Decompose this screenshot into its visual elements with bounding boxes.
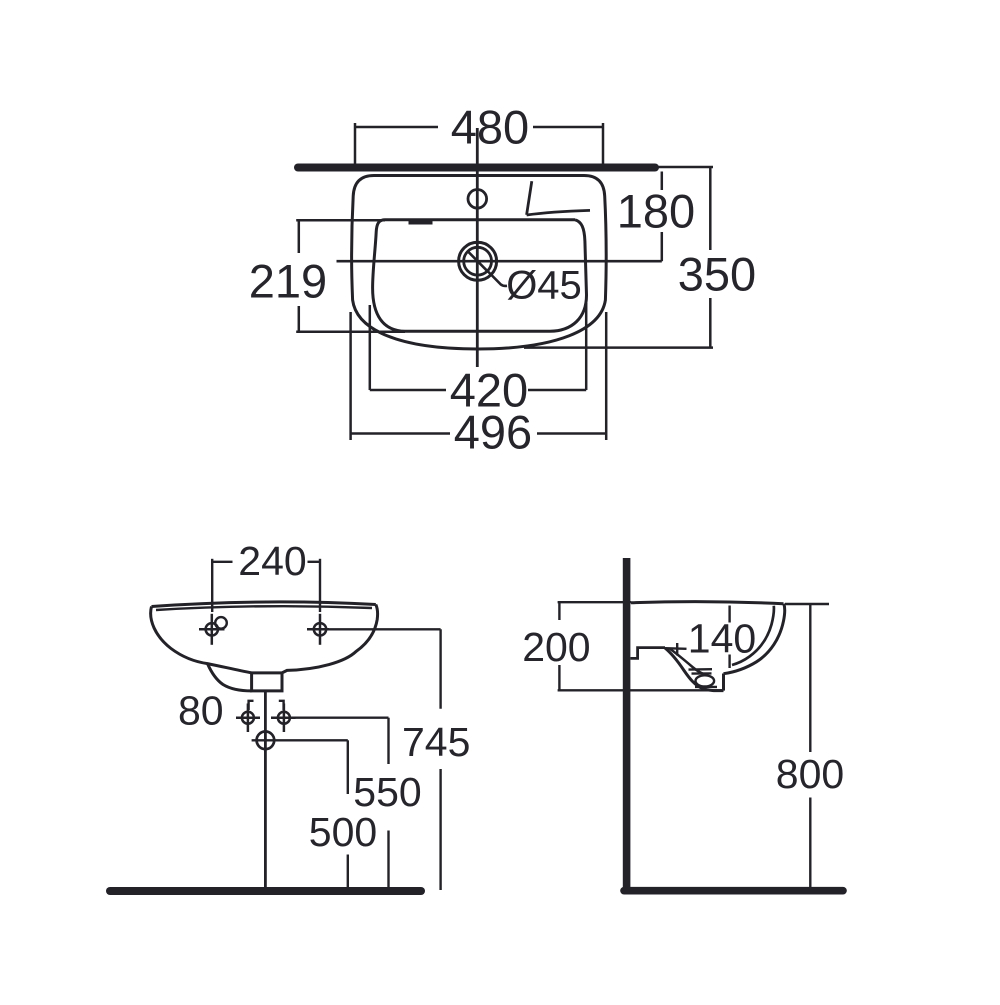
dim 480 ext left bbox=[354, 123, 357, 167]
dim 550 vertical bbox=[387, 718, 389, 764]
svg-text:745: 745 bbox=[402, 719, 470, 765]
svg-text:140: 140 bbox=[688, 616, 756, 662]
dim 480 ext right bbox=[602, 123, 605, 167]
svg-text:180: 180 bbox=[617, 185, 695, 238]
dim 140 line bbox=[728, 606, 730, 623]
floor line side (thick) bbox=[624, 887, 843, 895]
svg-text:219: 219 bbox=[249, 255, 327, 308]
overflow ring bbox=[215, 617, 227, 629]
trap oval under line bbox=[695, 686, 717, 688]
dim 240 ext right bbox=[319, 559, 321, 612]
dim 496 ext right bbox=[605, 312, 608, 440]
dim 219 top ext bbox=[296, 219, 385, 222]
basin underside inner line bbox=[670, 649, 706, 675]
dim 420 ext left bbox=[369, 305, 372, 390]
trap rectangle bbox=[252, 673, 282, 691]
overflow slot dash bbox=[409, 220, 433, 224]
dim 240 line bbox=[212, 561, 232, 563]
dim 550 horizontal bbox=[296, 717, 389, 719]
mounting hole right crosshair bbox=[307, 614, 329, 645]
trap right edge bbox=[722, 674, 725, 691]
dim 420 ext right bbox=[585, 303, 588, 390]
dim 350 line bbox=[709, 167, 712, 250]
basin top edge bbox=[631, 602, 784, 604]
dim 80 bracket right bbox=[279, 701, 284, 710]
svg-text:200: 200 bbox=[522, 624, 590, 670]
basin inner bowl outline bbox=[373, 220, 587, 331]
ledge continuation bbox=[665, 647, 687, 650]
dim 800 top ext bbox=[785, 603, 829, 605]
svg-text:550: 550 bbox=[353, 769, 421, 815]
drain hub curve bbox=[208, 664, 252, 691]
svg-text:496: 496 bbox=[454, 406, 532, 459]
svg-text:240: 240 bbox=[238, 538, 306, 584]
svg-text:Ø45: Ø45 bbox=[506, 264, 582, 308]
dim 180 line bbox=[661, 172, 664, 191]
drain leader line bbox=[488, 272, 507, 286]
drain outlet circle bbox=[257, 732, 275, 750]
tap deck front edge bbox=[527, 210, 590, 215]
dim 140 bottom tick cross bbox=[676, 643, 678, 656]
dim 240 ext left bbox=[211, 559, 213, 612]
drain outer circle bbox=[459, 242, 497, 280]
dim 200 line bbox=[558, 602, 560, 620]
bowl outline bbox=[151, 605, 378, 673]
wall line (thick) bbox=[298, 164, 655, 172]
dim 219 bottom ext bbox=[296, 331, 405, 334]
dim 80 bracket left bbox=[249, 701, 254, 710]
trap top lines bbox=[689, 668, 713, 671]
svg-text:350: 350 bbox=[678, 248, 756, 301]
basin back inner profile bbox=[732, 606, 774, 665]
mounting hole left crosshair bbox=[199, 614, 225, 645]
svg-text:480: 480 bbox=[451, 101, 529, 154]
dim 745 vertical bbox=[439, 629, 441, 708]
dim 500 horizontal bbox=[252, 739, 348, 741]
fixing hole left crosshair bbox=[236, 704, 260, 733]
dim 200 top ext bbox=[558, 601, 631, 603]
dim 496 line bbox=[351, 432, 450, 435]
rim top edge upper line bbox=[152, 602, 376, 607]
dim 350 top ext bbox=[656, 166, 713, 169]
dim 200 bottom ext bbox=[558, 689, 723, 691]
svg-text:80: 80 bbox=[178, 688, 224, 734]
wall ledge step bbox=[631, 648, 666, 659]
drain axis horizontal line bbox=[337, 260, 662, 263]
svg-text:500: 500 bbox=[309, 809, 377, 855]
dim 480 line bbox=[355, 126, 438, 129]
dim 420 line bbox=[370, 389, 446, 392]
dim 496 ext left bbox=[349, 312, 352, 440]
dim 500 vertical bbox=[347, 740, 349, 794]
trap oval bbox=[696, 675, 715, 686]
svg-text:800: 800 bbox=[776, 751, 844, 797]
fixing hole right crosshair bbox=[271, 704, 296, 733]
dim 745 horizontal bbox=[329, 628, 441, 630]
basin back outer profile bbox=[724, 604, 785, 674]
wall line (thick vertical) bbox=[623, 558, 631, 890]
waste pipe bbox=[264, 691, 267, 890]
dim 219 line bbox=[298, 220, 301, 253]
dim 800 line bbox=[809, 604, 811, 752]
basin outer rim outline bbox=[352, 176, 607, 350]
drain diagonal bbox=[468, 252, 487, 271]
dim 350 bottom ext bbox=[524, 346, 713, 349]
basin underside outer curve bbox=[665, 648, 724, 691]
centerline vertical bbox=[476, 128, 479, 367]
drain inner circle bbox=[464, 247, 492, 275]
tap deck diagonal bbox=[527, 181, 532, 215]
floor line front (thick) bbox=[110, 887, 421, 895]
rim top edge lower line bbox=[156, 606, 372, 610]
faucet hole bbox=[468, 190, 487, 209]
